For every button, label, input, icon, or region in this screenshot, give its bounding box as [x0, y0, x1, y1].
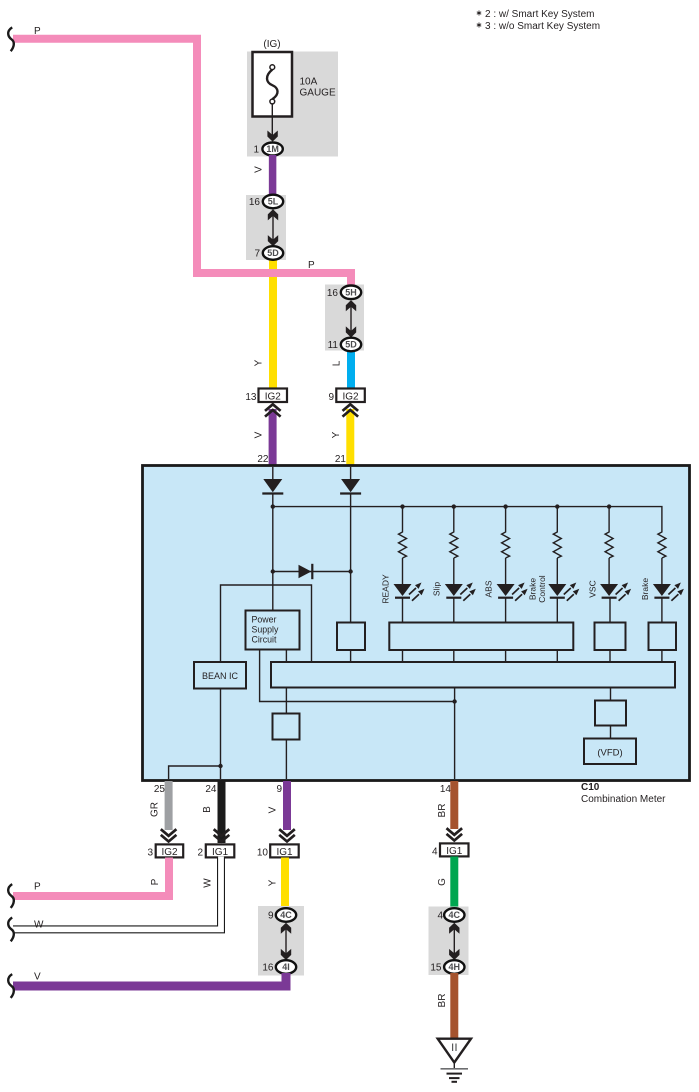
node dot diode link left: [271, 569, 275, 573]
svg-text:16: 16: [327, 288, 339, 299]
connector oval 5H pin 16: [341, 286, 361, 300]
svg-text:Supply: Supply: [252, 625, 279, 635]
svg-text:4I: 4I: [282, 962, 290, 972]
svg-text:G: G: [437, 878, 448, 886]
svg-text:9: 9: [276, 784, 282, 795]
indicator column VSC: [587, 504, 631, 622]
inter-connector arrow: [285, 927, 287, 955]
connector gray panel 5L/5D: [246, 195, 286, 260]
svg-text:9: 9: [328, 392, 334, 403]
page arrow down pin25: [161, 829, 177, 841]
svg-text:Y: Y: [331, 431, 342, 438]
svg-text:14: 14: [440, 784, 452, 795]
indicator column Brake: [640, 531, 684, 623]
fuse 10A GAUGE: [253, 52, 293, 117]
indicator column READY: [380, 504, 424, 622]
svg-text:3 : w/o Smart Key System: 3 : w/o Smart Key System: [485, 21, 600, 32]
svg-text:22: 22: [257, 454, 269, 465]
svg-text:P: P: [34, 882, 41, 893]
purple wire 1M to 5L: [269, 155, 277, 196]
page arrow below IG2 9: [343, 404, 359, 416]
svg-text:3: 3: [147, 848, 153, 859]
connector oval 5L pin 16: [263, 195, 283, 209]
green wire G to IG1-4: [450, 857, 458, 909]
connector oval 5D pin 7: [263, 246, 283, 260]
node dot pin22 bus: [271, 504, 275, 508]
svg-text:16: 16: [262, 963, 274, 974]
svg-text:Y: Y: [254, 359, 265, 366]
inter-connector arrow right: [350, 304, 352, 333]
brown wire BR pin14: [450, 781, 458, 829]
svg-text:Brake: Brake: [640, 578, 650, 600]
junction box IG1 pin 2: [206, 844, 235, 857]
wires rect1 to rect2: [403, 650, 662, 662]
purple wire V bottom: [13, 973, 286, 986]
svg-text:P: P: [308, 260, 315, 271]
connector gray panel 5H/5D right: [325, 285, 364, 351]
purple wire V pin9: [283, 781, 291, 830]
svg-text:5H: 5H: [345, 288, 357, 298]
diode D2 at pin 21: [340, 467, 361, 494]
VSC square: [595, 623, 626, 651]
svg-text:7: 7: [254, 249, 260, 260]
svg-text:1M: 1M: [266, 144, 279, 154]
node dot pin14: [452, 699, 456, 703]
combination meter box C10: [143, 466, 690, 781]
svg-text:(IG): (IG): [263, 39, 280, 50]
wire pin14 vertical: [454, 688, 456, 780]
page arrow below IG2 13: [265, 404, 281, 416]
indicator column Slip: [432, 504, 476, 622]
wire column pin21 down: [350, 495, 352, 623]
svg-text:4H: 4H: [449, 962, 461, 972]
svg-text:P: P: [150, 878, 161, 885]
svg-text:2 : w/ Smart Key System: 2 : w/ Smart Key System: [485, 9, 594, 20]
indicator column Brake Control: [527, 504, 579, 622]
wire rect2 to VFD square: [610, 688, 612, 701]
svg-text:24: 24: [205, 784, 217, 795]
brown wire BR to ground: [450, 973, 458, 1038]
wire square to pin 9: [285, 740, 287, 780]
svg-text:V: V: [254, 431, 265, 438]
junction box IG2 pin 3: [156, 844, 184, 857]
junction box IG1 pin 10: [270, 844, 299, 857]
svg-text:Combination Meter: Combination Meter: [581, 794, 666, 805]
connector oval 4C pin 9: [276, 908, 296, 922]
svg-text:21: 21: [335, 454, 347, 465]
yellow wire 5D to IG2: [269, 258, 277, 390]
svg-text:GR: GR: [150, 802, 161, 817]
svg-text:BR: BR: [437, 804, 448, 818]
page arrow down pin14: [447, 828, 463, 840]
wire PSC right leg: [285, 650, 287, 663]
svg-text:READY: READY: [380, 574, 390, 604]
inter-connector arrow: [453, 927, 455, 955]
svg-text:W: W: [203, 878, 214, 888]
svg-text:B: B: [202, 806, 213, 813]
svg-text:9: 9: [268, 911, 274, 922]
svg-text:IG2: IG2: [265, 392, 282, 403]
gray wire GR pin25: [165, 781, 173, 830]
yellow wire IG2 to pin 21: [346, 409, 354, 466]
svg-text:V: V: [268, 806, 279, 813]
svg-text:15: 15: [430, 963, 442, 974]
svg-text:5D: 5D: [345, 340, 357, 350]
svg-text:2: 2: [197, 848, 203, 859]
small square col21: [337, 623, 365, 651]
power supply circuit box: [246, 611, 300, 650]
white wire W to IG1-2: [11, 857, 221, 930]
svg-text:VSC: VSC: [587, 580, 597, 597]
svg-text:GAUGE: GAUGE: [300, 88, 336, 99]
VFD small square: [595, 701, 626, 726]
svg-text:4C: 4C: [280, 910, 292, 920]
svg-text:(VFD): (VFD): [597, 748, 622, 759]
svg-text:25: 25: [154, 784, 166, 795]
svg-text:1: 1: [253, 145, 259, 156]
svg-text:Brake: Brake: [527, 578, 537, 600]
ground symbol: [438, 1039, 471, 1082]
svg-text:Slip: Slip: [432, 582, 442, 596]
wire BEAN link: [221, 585, 312, 662]
connector oval 4H pin 15: [444, 960, 464, 974]
wire left column pin22 down to power supply: [272, 495, 274, 611]
svg-text:IG2: IG2: [161, 847, 178, 858]
black wire B pin24: [218, 781, 226, 843]
svg-text:Control: Control: [537, 575, 547, 603]
svg-text:11: 11: [328, 340, 339, 351]
wire square to VFD: [610, 726, 612, 739]
svg-text:IG1: IG1: [212, 847, 229, 858]
svg-text:W: W: [34, 920, 44, 931]
svg-text:10A: 10A: [300, 77, 318, 88]
svg-text:4: 4: [432, 847, 438, 858]
bus rectangle wide upper: [389, 623, 573, 651]
blue wire 5D to IG2 right: [347, 350, 355, 390]
page arrow down pin9: [279, 829, 295, 841]
indicator column ABS: [483, 504, 527, 622]
wire fuse to 1M: [271, 104, 273, 138]
fuse gray panel: [247, 52, 338, 157]
yellow wire Y to IG1-10: [281, 858, 289, 909]
VFD box: [584, 739, 636, 765]
diode D3 pointing right: [299, 564, 313, 579]
svg-text:P: P: [34, 26, 41, 37]
pink wire P to IG2-3: [13, 858, 169, 897]
bus rectangle long: [271, 662, 675, 688]
inter-connector arrow: [272, 213, 274, 242]
svg-text:Y: Y: [268, 879, 279, 886]
diode D1 at pin 22: [262, 467, 283, 494]
svg-text:Power: Power: [252, 615, 277, 625]
node dot diode link right: [348, 569, 352, 573]
svg-text:10: 10: [257, 848, 269, 859]
svg-text:BR: BR: [437, 994, 448, 1008]
small square pin 9: [273, 714, 300, 740]
connector oval 4I pin 16: [276, 960, 296, 974]
page arrow down pin24: [214, 829, 230, 841]
svg-text:13: 13: [245, 392, 257, 403]
svg-text:BEAN IC: BEAN IC: [202, 671, 239, 681]
wire rect2 to small square pin9: [285, 688, 287, 714]
junction box IG2 pin 9: [336, 389, 365, 403]
wire bus top horizontal: [273, 507, 662, 531]
svg-text:5D: 5D: [267, 248, 279, 258]
connector gray panel 4C/4H: [429, 907, 469, 976]
connector gray panel 4C/4I: [258, 906, 304, 976]
wire diode link horizontal: [273, 571, 351, 573]
svg-text:4: 4: [437, 911, 443, 922]
connector oval 1M pin 1: [262, 143, 282, 156]
svg-text:IG1: IG1: [446, 846, 463, 857]
svg-text:16: 16: [249, 197, 261, 208]
node dot pin24: [218, 764, 222, 768]
junction box IG2 pin 13: [259, 389, 288, 403]
svg-text:4C: 4C: [449, 910, 461, 920]
svg-text:V: V: [34, 972, 41, 983]
svg-text:IG2: IG2: [342, 392, 359, 403]
svg-text:C10: C10: [581, 782, 600, 793]
svg-text:5L: 5L: [268, 197, 279, 207]
connector oval 5D pin 11: [341, 338, 361, 352]
wire BEAN to pins 24/25: [169, 689, 221, 780]
brake square: [649, 623, 677, 651]
svg-text:L: L: [332, 360, 343, 366]
svg-text:Circuit: Circuit: [252, 635, 277, 645]
svg-text:ABS: ABS: [483, 580, 493, 597]
BEAN IC box: [194, 662, 246, 689]
squiggle pink start: [8, 27, 14, 51]
wire col21 square to rect2: [350, 650, 352, 662]
wire PSC left leg to pin14: [260, 650, 455, 702]
junction box IG1 pin 4: [440, 843, 469, 856]
purple wire IG2 to pin 22: [269, 409, 277, 466]
svg-text:V: V: [254, 166, 265, 173]
note marker star 2: [477, 11, 481, 28]
svg-text:IG1: IG1: [276, 847, 293, 858]
connector oval 4C pin 4: [444, 908, 464, 922]
wire pink main P: [13, 39, 351, 288]
